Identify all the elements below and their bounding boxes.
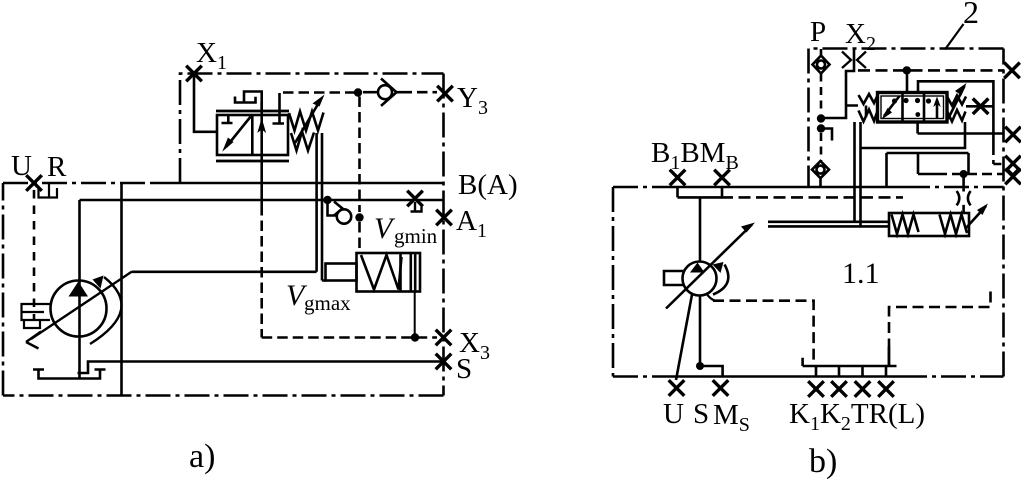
svg-text:1.1: 1.1 [842,257,880,290]
svg-text:b): b) [809,443,837,479]
svg-text:a): a) [189,438,215,475]
svg-text:P: P [810,16,826,48]
svg-text:B(A): B(A) [458,169,518,201]
svg-text:S: S [693,398,709,430]
svg-text:gmax: gmax [304,291,351,315]
svg-text:K1K2TR(L): K1K2TR(L) [789,398,925,435]
svg-text:gmin: gmin [394,224,438,248]
svg-text:U: U [663,398,684,430]
svg-text:2: 2 [963,0,979,30]
svg-text:R: R [47,151,67,183]
svg-text:U: U [11,150,32,182]
svg-text:S: S [456,353,472,385]
